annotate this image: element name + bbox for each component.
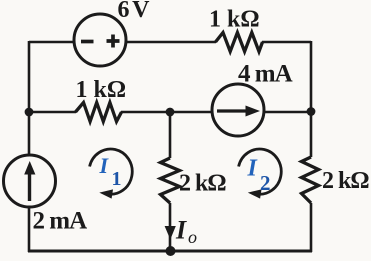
mesh current I2 arc <box>239 149 282 194</box>
wire left vertical lower <box>28 207 31 252</box>
minus sign of V1 <box>81 40 94 44</box>
wire middle vertical upper <box>169 112 172 158</box>
resistor 2k middle vertical <box>161 158 180 203</box>
resistor 1k top row <box>216 33 263 52</box>
svg-text:1 kΩ: 1 kΩ <box>76 77 127 103</box>
svg-text:2 mA: 2 mA <box>33 208 88 235</box>
svg-text:I: I <box>247 156 259 182</box>
wire top-left horizontal <box>29 41 74 44</box>
node A left middle <box>25 108 34 117</box>
wire top-right horizontal <box>262 41 311 44</box>
svg-text:I: I <box>175 216 187 245</box>
wire middle row center <box>121 111 212 114</box>
current source I2mA circle <box>4 155 56 207</box>
svg-text:1 kΩ: 1 kΩ <box>209 7 260 33</box>
svg-text:I: I <box>99 153 110 178</box>
Io arrowhead <box>165 226 176 240</box>
svg-text:o: o <box>188 227 197 247</box>
resistor 2k right vertical <box>302 157 319 203</box>
svg-text:2: 2 <box>260 171 271 195</box>
wire right vertical upper <box>310 41 313 157</box>
voltage source V1 6V circle <box>74 14 126 66</box>
node B center middle <box>166 108 175 117</box>
wire top-middle horizontal <box>126 41 216 44</box>
current source I4mA circle <box>212 84 264 136</box>
mesh current I1 arc <box>90 149 133 194</box>
svg-text:2 kΩ: 2 kΩ <box>322 168 369 194</box>
wire middle row left <box>29 111 76 114</box>
svg-text:4 mA: 4 mA <box>238 61 293 88</box>
wire middle row right <box>264 111 311 114</box>
svg-text:6 V: 6 V <box>118 0 151 23</box>
wire right vertical lower <box>310 203 313 252</box>
plus sign of V1 <box>107 35 120 48</box>
wire left vertical upper <box>28 41 31 155</box>
svg-text:2 kΩ: 2 kΩ <box>179 171 226 197</box>
svg-text:1: 1 <box>112 168 122 190</box>
node C right middle <box>307 107 316 116</box>
arrow of 4mA source <box>217 109 248 112</box>
resistor 1k middle row <box>76 103 122 122</box>
wire bottom horizontal <box>28 250 312 253</box>
wire middle vertical lower <box>169 203 172 251</box>
arrow of 2mA source <box>28 172 31 201</box>
node D bottom center <box>166 246 176 256</box>
